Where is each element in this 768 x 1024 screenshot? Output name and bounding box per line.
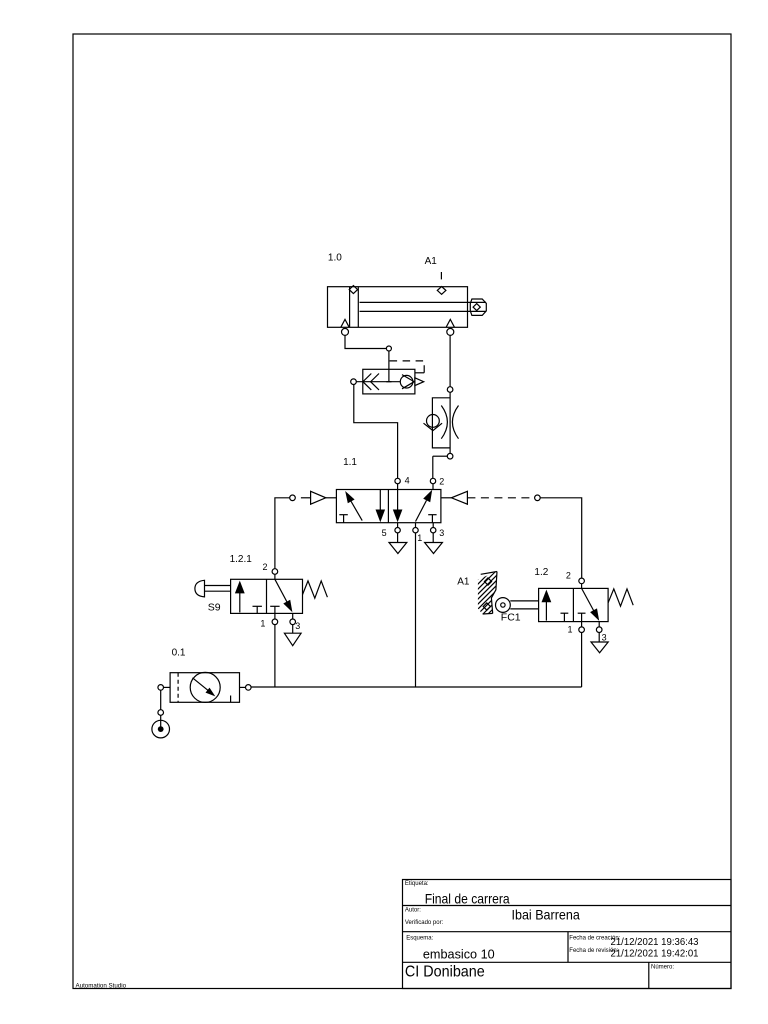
cylinder A1 sensor tick (440, 272, 442, 279)
cylinder right port chevron (446, 319, 454, 327)
valve 1.1 port 3 label (439, 528, 444, 538)
svg-text:5: 5 (382, 528, 387, 538)
cylinder right port circle (447, 328, 454, 335)
title block Final de carrera (425, 890, 510, 906)
valve 1.1 left pilot line (301, 497, 311, 499)
air service unit regulator arrow (193, 678, 216, 697)
valve 1.2.1 body (231, 579, 303, 613)
quick exhaust valve outlet triangle (415, 378, 424, 386)
svg-text:Esquema:: Esquema: (406, 936, 433, 942)
valve 1.2.1 left box blocked port T (253, 606, 262, 613)
valve 1.2.1 port 3 circle (290, 613, 296, 633)
drawing frame border (73, 34, 731, 989)
svg-text:A1: A1 (425, 256, 438, 267)
quick exhaust valve exhaust double chevron (363, 374, 379, 390)
valve 1.2.1 label (230, 554, 253, 565)
cylinder A1 diamond marker (437, 287, 446, 295)
air service unit right port circle (240, 685, 252, 691)
flow control valve bypass check seat (424, 423, 443, 430)
cylinder rod (360, 302, 487, 311)
valve 1.2.1 port 1 label (260, 619, 265, 629)
flow control valve bottom port circle (447, 453, 453, 459)
svg-text:2: 2 (263, 562, 268, 572)
valve 1.2 port 3 circle (596, 622, 602, 642)
valve 1.2.1 port 2 label (263, 562, 268, 572)
svg-text:1.2.1: 1.2.1 (230, 554, 253, 565)
valve 1.2.1 right box blocked port T (270, 606, 279, 613)
valve 1.2.1 port 3 label (295, 621, 300, 631)
title block outer (403, 880, 732, 989)
quick exhaust valve internal top port line (386, 369, 391, 381)
wire quick exhaust valve to valve 1.1 port 4 (354, 385, 398, 479)
title block Verificado por label (405, 920, 444, 926)
svg-text:Verificado por:: Verificado por: (405, 920, 444, 926)
valve 1.2 port 2 label (566, 571, 571, 581)
svg-text:Número:: Número: (651, 964, 674, 970)
valve 1.2.1 port 3 exhaust triangle (284, 633, 301, 646)
valve 1.1 left box down arrow (376, 490, 386, 523)
cylinder piston (350, 287, 359, 327)
flow control valve bypass check circle (427, 415, 440, 428)
valve 1.2.1 port 1 circle (272, 613, 278, 624)
valve 1.1 right box blocked port T (428, 515, 436, 523)
svg-text:1: 1 (417, 533, 422, 543)
valve 1.1 left box blocked port T (339, 515, 348, 523)
valve 1.2 port 2 circle (579, 578, 585, 588)
valve 1.1 port 2 circle (430, 478, 435, 489)
svg-text:Etiqueta:: Etiqueta: (405, 881, 429, 887)
svg-text:S9: S9 (208, 601, 221, 613)
title block embasico 10 (423, 946, 495, 961)
air service unit dashed filter line (177, 673, 179, 703)
cylinder piston diamond marker (349, 286, 357, 294)
cylinder left port chevron (341, 319, 349, 327)
valve 1.1 port 5 circle (395, 523, 400, 543)
svg-text:1.0: 1.0 (328, 252, 342, 263)
valve 1.2 body (539, 588, 609, 621)
valve 1.2 A1 label (457, 577, 470, 588)
title block date 2 (611, 949, 699, 960)
cylinder 1.0 body (328, 287, 468, 328)
valve 1.2 FC1 label (501, 612, 521, 624)
valve 1.2 port 1 label (568, 625, 573, 635)
valve 1.1 right box diagonal arrow (416, 490, 433, 522)
title block CI Donibane (405, 964, 485, 981)
wire valve 1.1 port 1 to manifold (415, 533, 417, 687)
valve 1.2.1 right box diagonal arrow (275, 579, 293, 612)
valve 1.1 port 1 circle (413, 523, 418, 533)
quick exhaust valve body (363, 369, 415, 394)
valve 1.1 right pilot triangle (441, 491, 468, 504)
valve 1.1 port 2 label (439, 477, 444, 487)
quick exhaust valve pilot dashed line (390, 361, 425, 373)
svg-text:1: 1 (568, 625, 573, 635)
air source port circle (158, 710, 164, 716)
valve 1.1 port 5 exhaust triangle (389, 543, 407, 554)
valve 1.2 right box diagonal arrow (582, 588, 600, 621)
wire valve 1.2 port 1 to manifold (581, 633, 583, 688)
cylinder A1 label (425, 256, 438, 267)
valve 1.1 body (336, 490, 441, 523)
svg-text:4: 4 (405, 476, 410, 486)
valve 1.2 port 3 label (602, 632, 607, 642)
air service unit tick (230, 696, 232, 703)
svg-text:Automation Studio: Automation Studio (76, 983, 127, 990)
title block Numero label (651, 964, 674, 970)
svg-text:Ibai Barrena: Ibai Barrena (512, 906, 580, 922)
valve 1.2 roller FC1 (496, 598, 539, 613)
flow control valve throttle arcs (441, 406, 458, 439)
svg-text:21/12/2021 19:36:43: 21/12/2021 19:36:43 (611, 937, 699, 948)
valve 1.1 port 3 exhaust triangle (425, 543, 443, 554)
quick exhaust valve check chevron (402, 375, 414, 389)
title block Etiqueta label (405, 881, 429, 887)
cylinder rod end diamond marker (473, 304, 480, 311)
valve 1.2.1 spring (303, 581, 328, 598)
valve 1.1 left pilot triangle (311, 491, 337, 504)
quick exhaust valve pilot stub (415, 372, 424, 374)
flow control valve bypass loop (432, 398, 450, 448)
wire air source to unit (160, 690, 162, 710)
cylinder rod end cap (470, 299, 486, 315)
valve 1.1 label (343, 457, 357, 468)
valve 1.1 left pilot wire from valve 1.2.1 (275, 498, 290, 569)
quick exhaust valve check circle (400, 375, 413, 388)
svg-text:21/12/2021 19:42:01: 21/12/2021 19:42:01 (611, 949, 699, 960)
valve 1.1 right box down arrow (393, 490, 403, 523)
air service unit 0.1 label (172, 647, 186, 658)
valve 1.2.1 S9 label (208, 601, 221, 613)
air service unit body (170, 673, 239, 703)
cylinder left port circle (342, 328, 349, 335)
valve 1.2 left box up arrow (542, 590, 552, 621)
valve 1.1 right pilot wire to valve 1.2 port 2 (540, 498, 582, 578)
valve 1.2 cam wall A1 (470, 552, 500, 647)
wire cylinder left port to node (345, 335, 386, 348)
valve 1.1 left box diagonal arrow (345, 491, 362, 521)
svg-text:Autor:: Autor: (405, 908, 421, 914)
svg-text:CI Donibane: CI Donibane (405, 964, 485, 981)
title block Fecha de creacion label (569, 936, 620, 942)
valve 1.2.1 left box up arrow (235, 581, 245, 613)
valve 1.2 left box blocked port T (561, 613, 569, 621)
valve 1.1 port 5 label (382, 528, 387, 538)
svg-text:2: 2 (439, 477, 444, 487)
flow control valve main line (449, 392, 451, 453)
wire cylinder right port down (449, 335, 451, 386)
svg-text:A1: A1 (457, 577, 470, 588)
valve 1.1 port 3 circle (431, 523, 436, 543)
flow control valve top port circle (447, 387, 453, 393)
quick exhaust valve left port circle (351, 379, 357, 385)
valve 1.1 left pilot wire circle (290, 495, 296, 501)
air service unit regulator circle (190, 672, 220, 702)
cylinder 1.0 label (328, 252, 342, 263)
quick exhaust valve internal flow line (356, 381, 400, 383)
air source symbol (152, 715, 170, 738)
svg-text:FC1: FC1 (501, 612, 521, 624)
svg-text:3: 3 (602, 632, 607, 642)
valve 1.2 right box blocked port T (578, 613, 586, 621)
title block Ibai Barrena (512, 906, 580, 922)
svg-text:Final de carrera: Final de carrera (425, 890, 510, 906)
valve 1.1 port 4 label (405, 476, 410, 486)
valve 1.1 right pilot dashed line (467, 497, 534, 499)
title block Esquema label (406, 936, 433, 942)
svg-text:3: 3 (439, 528, 444, 538)
svg-text:embasico 10: embasico 10 (423, 946, 495, 961)
wire valve 1.2.1 port 1 to manifold (274, 625, 276, 687)
valve 1.2 label (534, 567, 548, 578)
svg-text:0.1: 0.1 (172, 647, 186, 658)
svg-text:3: 3 (295, 621, 300, 631)
svg-text:1.2: 1.2 (534, 567, 548, 578)
valve 1.2 spring (608, 589, 633, 606)
valve 1.1 port 4 circle (395, 478, 400, 489)
svg-text:2: 2 (566, 571, 571, 581)
valve 1.2.1 port 2 circle (272, 569, 278, 580)
valve 1.1 right pilot wire circle (535, 495, 541, 501)
title block Autor label (405, 908, 421, 914)
wire node to quick exhaust valve top (388, 351, 390, 369)
svg-text:1.1: 1.1 (343, 457, 357, 468)
manifold supply line (251, 686, 581, 688)
node junction circle (386, 346, 391, 351)
valve 1.2.1 push button S9 (195, 580, 231, 597)
valve 1.2 port 1 circle (579, 622, 585, 633)
valve 1.1 port 1 label (417, 533, 422, 543)
wire flow control valve to valve 1.1 port 2 (433, 456, 448, 478)
Automation Studio footer (76, 983, 127, 990)
svg-text:1: 1 (260, 619, 265, 629)
valve 1.2 port 3 exhaust triangle (591, 642, 608, 653)
air service unit left port circle (158, 685, 170, 691)
title block date 1 (611, 937, 699, 948)
title block Fecha de revision label (569, 948, 618, 954)
